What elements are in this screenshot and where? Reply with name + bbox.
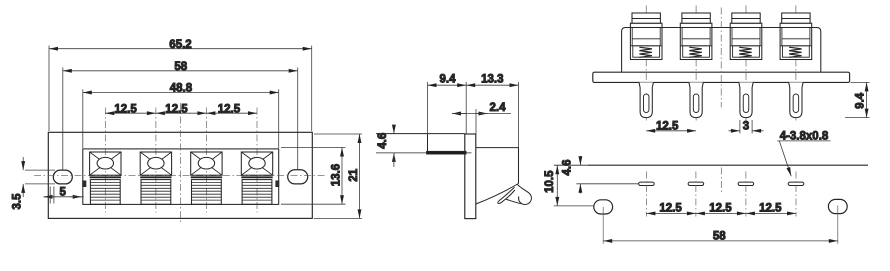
footprint slot 3 centerline — [745, 172, 747, 217]
svg-text:5: 5 — [59, 186, 66, 198]
lever 4 spring coil — [789, 47, 802, 57]
side view: spring claw beak — [498, 187, 515, 203]
solder pin 4 slot — [793, 94, 799, 113]
solder pin 1 — [639, 82, 653, 117]
terminal 1 button ridges — [90, 182, 120, 200]
terminal 1 button block — [90, 180, 120, 205]
svg-text:4.6: 4.6 — [562, 159, 574, 175]
terminal 2 cavity square — [140, 152, 171, 175]
terminal 3 cavity square — [191, 152, 222, 175]
dim 65.2 extension lines — [48, 46, 50, 132]
terminal 4 button ridges — [242, 182, 272, 200]
terminal 1 cavity square — [90, 152, 121, 175]
dim 48.8 extension lines — [82, 89, 84, 148]
front view: horizontal centerline — [34, 175, 326, 177]
terminal 3 diagonal b — [191, 152, 222, 175]
lever 1 body — [630, 23, 662, 59]
lever 3 mid line — [732, 38, 760, 40]
front view: recess opening — [83, 149, 279, 205]
side view: body top edge — [476, 147, 519, 149]
svg-text:21: 21 — [348, 168, 360, 181]
svg-text:65.2: 65.2 — [169, 39, 191, 51]
footprint slot 4 centerline — [795, 172, 797, 217]
footprint: right mounting hole — [828, 199, 847, 213]
side view: spring claw foot tail — [506, 199, 522, 204]
side view: pin shroud bottom line — [376, 152, 472, 154]
terminal 2 button block — [141, 180, 171, 205]
lever 1 centerline — [645, 6, 647, 123]
solder pin 3 slot — [743, 94, 749, 113]
footprint slot 2 — [688, 182, 704, 185]
terminal 4 button block — [242, 180, 272, 205]
front view: panel outline — [48, 132, 312, 218]
terminal 4 clamp bar — [241, 176, 272, 178]
terminal 3 spring eye — [198, 157, 214, 169]
svg-text:58: 58 — [174, 61, 187, 73]
front view: notch right wall — [276, 181, 279, 187]
solder pin 2 — [689, 82, 703, 117]
terminal 1 diagonal a — [90, 152, 121, 175]
lever 4 mid line — [782, 38, 810, 40]
pin slot callout underline — [777, 140, 830, 142]
lever 2 spring coil — [689, 47, 702, 57]
side view: pin shroud left edge — [427, 134, 429, 153]
lever 3 cap line — [732, 18, 760, 20]
svg-text:9.4: 9.4 — [855, 92, 867, 109]
dim 3.5 arrows — [22, 157, 24, 170]
footprint slot 2 centerline — [695, 172, 697, 217]
dim 12.5 pitch b line — [156, 112, 207, 114]
lever 1 shoulder line — [630, 27, 662, 29]
dim 58 line — [63, 70, 298, 72]
svg-text:12.5: 12.5 — [165, 103, 188, 115]
side view: lever back edge — [518, 148, 520, 184]
svg-text:4.6: 4.6 — [377, 133, 389, 149]
lever 3 spring housing — [730, 45, 762, 47]
lever 1 mid line — [632, 38, 660, 40]
dim 2.4 line and arrows — [452, 113, 466, 115]
dim 2.4 extension line — [475, 109, 477, 134]
svg-text:13.6: 13.6 — [330, 164, 342, 186]
terminal 4 diagonal b — [241, 152, 272, 175]
dim 13.6 extension lines — [281, 147, 346, 149]
terminal 4 diagonal a — [241, 152, 272, 175]
footprint slot 1 centerline — [645, 172, 647, 217]
svg-text:12.5: 12.5 — [659, 203, 682, 215]
lever 4 cap line — [782, 18, 810, 20]
lever 2 shoulder line — [680, 27, 712, 29]
lever 4 centerline — [795, 6, 797, 123]
terminal 3 button ridges — [192, 182, 222, 200]
solder pin 2 slot — [693, 94, 699, 113]
terminal 2 spring eye — [148, 157, 164, 169]
footprint slot 3 — [738, 182, 754, 185]
dim 58 extension lines — [62, 68, 64, 171]
terminal 1 clamp bar — [90, 176, 121, 178]
front view: right mounting slot — [288, 170, 308, 184]
svg-text:3: 3 — [743, 121, 749, 133]
svg-text:12.5: 12.5 — [218, 103, 241, 115]
svg-text:12.5: 12.5 — [114, 103, 137, 115]
svg-text:58: 58 — [713, 231, 726, 243]
terminal 4 spring eye — [249, 157, 265, 169]
terminal 2 clamp bar — [140, 176, 171, 178]
dim 4.6 footprint extension — [576, 183, 638, 185]
dim 3 extension lines — [739, 120, 741, 134]
dim 5 line and arrows — [44, 196, 56, 198]
footprint: left mounting hole — [594, 200, 613, 214]
dim 3.5 extension lines — [25, 169, 55, 171]
terminal 2 button ridges — [141, 182, 171, 200]
dim 12.5 pitch a line — [105, 112, 156, 114]
footprint: right hole extension — [837, 206, 839, 244]
dim 21 extension lines — [314, 133, 362, 135]
side view: flange plate — [465, 134, 476, 219]
lever 2 cap — [682, 13, 710, 23]
lever 2 mid line — [682, 38, 710, 40]
terminal 2 diagonal b — [140, 152, 171, 175]
terminal 2 diagonal a — [140, 152, 171, 175]
lever 2 spring housing — [680, 45, 712, 47]
svg-text:12.5: 12.5 — [656, 120, 679, 132]
side view: pin shroud top — [376, 133, 465, 135]
lever 3 cap — [732, 13, 760, 23]
dim 12.5 pitch c line — [206, 112, 257, 114]
lever 2 centerline — [695, 6, 697, 123]
svg-text:3.5: 3.5 — [12, 193, 24, 210]
svg-text:12.5: 12.5 — [759, 203, 782, 215]
footprint slot 4 — [788, 182, 804, 185]
top view: middle axis — [720, 8, 722, 108]
lever 2 cap line — [682, 18, 710, 20]
lever 3 inner walls — [731, 28, 733, 46]
svg-text:12.5: 12.5 — [709, 203, 732, 215]
dim 10.5 footprint extension — [554, 205, 594, 207]
lever 4 cap — [782, 13, 810, 23]
front view: vertical center axis — [180, 103, 182, 224]
lever 2 body — [680, 23, 712, 59]
solder pin 1 slot — [643, 94, 649, 113]
lever 3 shoulder line — [730, 27, 762, 29]
side view: spring claw foot loop — [517, 184, 531, 204]
front view: left mounting slot — [53, 170, 72, 184]
svg-text:2.4: 2.4 — [490, 102, 507, 114]
lever 4 spring housing — [780, 45, 812, 47]
dim 9.4 and 13.3 extension lines — [427, 82, 429, 134]
dim 65.2 line — [49, 48, 312, 50]
top view: flange plate — [593, 72, 850, 82]
lever 3 spring coil — [739, 47, 752, 57]
lever 4 inner walls — [781, 28, 783, 46]
dim 12.5 footprint b — [696, 212, 746, 214]
lever 4 body — [780, 23, 812, 59]
lever 1 inner walls — [631, 28, 633, 46]
dim 4.6 side arrows — [393, 126, 395, 134]
dim 12.5 top view line — [646, 130, 696, 132]
dim 5 extension lines — [49, 187, 51, 204]
svg-text:9.4: 9.4 — [440, 74, 457, 86]
solder pin 4 — [789, 82, 803, 117]
terminal 4 centerline — [256, 108, 258, 213]
top view: body plate — [622, 28, 821, 73]
svg-text:48.8: 48.8 — [170, 83, 193, 95]
svg-text:10.5: 10.5 — [544, 170, 556, 193]
footprint: panel edge line — [588, 164, 868, 166]
terminal 1 spring eye — [97, 157, 113, 169]
pin slot callout leader — [779, 141, 791, 176]
dim 4.6 footprint arrows — [579, 156, 581, 165]
footprint slot 1 — [639, 182, 655, 185]
terminal 3 clamp bar — [191, 176, 222, 178]
dim 12.5 footprint a — [646, 212, 696, 214]
svg-text:4-3.8x0.8: 4-3.8x0.8 — [780, 130, 829, 142]
dim 10.5 footprint line — [556, 165, 558, 206]
terminal 3 diagonal a — [191, 152, 222, 175]
lever 1 spring housing — [630, 45, 662, 47]
dim 21 line — [359, 134, 361, 218]
solder pin 3 — [739, 82, 753, 117]
svg-text:13.3: 13.3 — [481, 74, 503, 86]
dim 9.4 top view line — [866, 82, 868, 117]
dim 48.8 line — [83, 92, 279, 94]
dim 3 line and arrows — [729, 130, 740, 132]
footprint: panel edge extension — [554, 164, 588, 166]
lever 3 centerline — [745, 6, 747, 123]
dim 13.3 line — [466, 84, 518, 86]
lever 4 shoulder line — [780, 27, 812, 29]
dim 12.5 footprint c — [746, 212, 796, 214]
side view: contact bar — [427, 151, 466, 154]
lever 1 cap — [632, 13, 660, 23]
terminal 1 diagonal b — [90, 152, 121, 175]
dim 9.4 top view extension lines — [851, 81, 870, 83]
lever 2 inner walls — [681, 28, 683, 46]
terminal 1 centerline — [104, 108, 106, 213]
footprint: left hole extension — [602, 207, 604, 244]
lever 1 cap line — [632, 18, 660, 20]
lever 1 spring coil — [639, 47, 652, 57]
terminal 3 centerline — [205, 108, 207, 213]
terminal 4 cavity square — [241, 152, 272, 175]
front view: notch left wall — [83, 181, 86, 187]
lever 3 body — [730, 23, 762, 59]
dim 13.6 line — [341, 148, 343, 205]
dim 9.4 line — [428, 84, 467, 86]
footprint: middle axis segment — [720, 168, 722, 195]
terminal 2 centerline — [155, 108, 157, 213]
terminal 3 button block — [192, 180, 222, 205]
side view: body bottom arc — [476, 184, 519, 205]
dim 58 line — [603, 240, 838, 242]
